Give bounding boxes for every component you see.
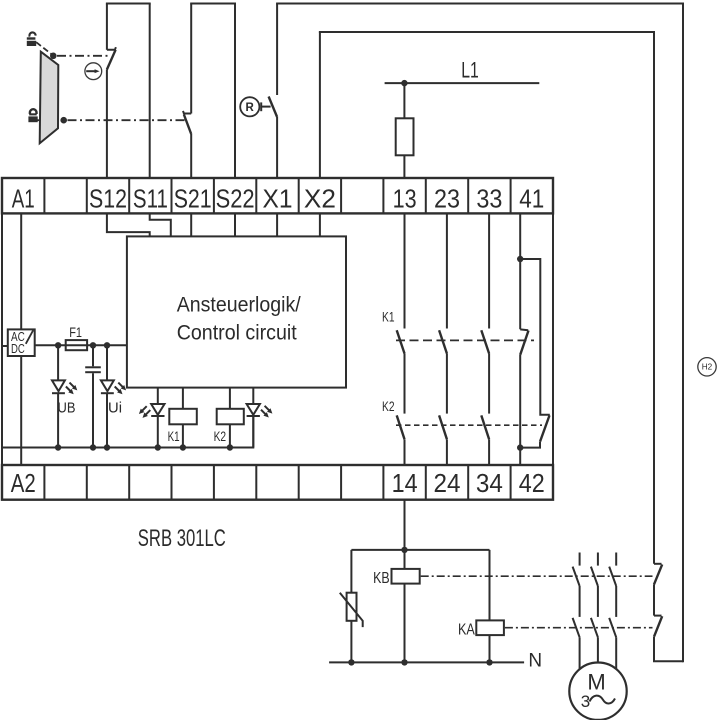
wire S12 to control box [107,213,150,236]
padlock closed (bottom) [28,109,37,122]
fuse F1 [66,325,87,350]
linkage dashed KA [505,627,653,629]
contactor KB contact L3 (NO) [609,553,616,617]
LED UB [52,345,77,447]
wire X1 to control box [276,213,278,236]
module frame left [1,213,3,464]
node rail2 UB [55,444,61,450]
relay coil KB [373,550,420,663]
terminal strip bottom row [2,465,553,500]
node L1 junction [401,80,407,86]
svg-text:34: 34 [476,468,503,498]
wire internal bottom rail [2,416,253,448]
contact K2 13-14 (NO) [397,415,405,464]
contact K1 33-34 (NO) [481,213,489,413]
svg-text:F1: F1 [69,325,82,340]
svg-text:K2: K2 [214,429,227,444]
label SRB 301LC [138,525,226,552]
capacitor C1 [85,345,101,447]
door contact B2 (NC) on S21 [183,4,191,178]
wire internal supply rail [35,344,127,346]
svg-text:Ui: Ui [108,400,122,416]
contactor KB contact L1 (NO) [573,553,580,617]
svg-text:X2: X2 [304,184,336,214]
terminal 33 [476,184,502,214]
reset button R [240,97,270,116]
svg-text:L1: L1 [461,58,479,83]
terminal strip top row [2,177,553,213]
svg-text:42: 42 [519,468,545,498]
svg-text:23: 23 [434,184,460,214]
svg-text:Ansteuerlogik/: Ansteuerlogik/ [177,293,301,317]
LED K1 [139,388,165,448]
node varistor N [348,659,354,665]
actuator direction symbol [85,63,102,80]
terminal 34 [476,468,503,498]
terminal S21 [174,184,212,214]
terminal 41 [519,184,544,214]
svg-text:A2: A2 [11,468,36,498]
svg-text:K1: K1 [382,309,395,325]
node rail Ui [104,342,110,348]
wire 14 down [404,500,406,550]
terminal S22 [216,184,255,214]
relay coil K2 [214,388,244,448]
wire N line [329,651,542,672]
svg-text:24: 24 [434,468,461,498]
varistor [340,550,363,663]
control circuit box U1 [127,236,346,387]
svg-text:14: 14 [392,468,418,498]
relay coil K1 [168,388,197,448]
svg-text:33: 33 [476,184,502,214]
svg-text:H2: H2 [702,363,713,372]
wire S21 to control box [190,213,192,236]
svg-text:X1: X1 [263,184,293,214]
wire X2 to control box [319,213,321,236]
LED Ui [101,345,126,447]
wire S11 to control box [150,213,171,236]
svg-text:S11: S11 [133,184,168,214]
wire frame stub to AC/DC [2,345,8,347]
wire A1 through to A2 row [20,356,22,465]
contact K1 23-24 (NO) [439,213,447,413]
linkage dashed K1 contacts [396,339,534,341]
wire X1 feedback loop top [276,4,684,663]
contactor KA contact L2 (NO) [591,618,598,663]
node rail2 LED K1 [155,444,161,450]
svg-text:M: M [587,670,605,695]
node rail2 C1 [90,444,96,450]
terminal 23 [434,184,460,214]
feedback contact KA (NC) [654,584,662,636]
contact K2 41-42 (NC) bypass branch [519,259,550,448]
label K1 contacts [382,309,395,325]
terminal A2 [11,468,36,498]
reset contact (NO) on X1 [269,4,278,178]
terminal S12 [89,184,127,214]
relay coil KA [458,550,504,663]
L1 supply line [385,58,540,84]
wire S12-S11 top loop [106,4,151,178]
linkage dashed K2 contacts [396,424,542,426]
node rail2 Ui [104,444,110,450]
svg-text:S12: S12 [89,184,127,214]
terminal A1 [12,184,35,214]
contact K1 41-42 (NC) [520,259,528,446]
LED K2 [247,388,273,448]
contactor KA contact L1 (NO) [573,618,580,670]
svg-text:A1: A1 [12,184,35,214]
wire branch rail KB/KA [351,549,489,551]
indicator H2 [698,358,716,376]
node KB N [401,659,407,665]
wire 41 lead [519,213,521,259]
contactor KB contact L2 (NO) [591,553,598,617]
wire S22 to control box [234,213,236,236]
svg-text:41: 41 [519,184,544,214]
terminal 42 [519,468,545,498]
wire S21-S22 top loop [190,4,236,178]
node 14 branch [401,547,407,553]
wire A1 down [20,213,22,329]
svg-text:S22: S22 [216,184,255,214]
terminal X1 [263,184,293,214]
module frame right [552,213,554,464]
wire X2 feedback loop [319,32,655,564]
padlock open (top) [27,32,36,46]
wire 42 to terminal [519,448,521,465]
terminal 14 [392,468,418,498]
motor M 3~ [569,663,626,720]
svg-text:Control circuit: Control circuit [177,320,297,344]
node door hinge top [50,53,57,60]
svg-text:R: R [245,102,254,114]
node rail C1 [90,342,96,348]
door contact B1 (NC) on S12 [107,4,116,178]
feedback contact KB (NC) [654,564,662,585]
svg-text:KA: KA [458,621,475,638]
node rail UB [55,342,61,348]
linkage dash-dot door to contact B1 [57,55,111,57]
contact K1 13-14 (NO) [397,213,405,413]
safety guard door [40,52,59,144]
AC/DC converter [8,329,35,356]
svg-text:3: 3 [581,692,590,711]
linkage dash-dot door to contact B2 [37,119,187,121]
svg-text:KB: KB [373,570,390,587]
node 42 branch bottom [517,444,523,450]
linkage dashed padlock to hinge top [36,42,51,54]
svg-text:13: 13 [393,184,417,214]
wire feedback bottom [654,637,683,662]
node rail2 coil K1 [180,444,186,450]
svg-text:K2: K2 [382,398,395,414]
svg-text:SRB 301LC: SRB 301LC [138,525,226,552]
svg-text:N: N [528,651,542,672]
contactor KA contact L3 (NO) [609,618,616,669]
node rail2 coil K2 [227,444,233,450]
svg-text:UB: UB [58,400,76,416]
svg-text:S21: S21 [174,184,212,214]
terminal 24 [434,468,461,498]
contact K2 23-24 (NO) [439,415,447,464]
node door hinge bottom [60,117,67,124]
fuse F2 on 13 feed [396,83,414,177]
svg-text:DC: DC [11,342,25,356]
linkage dashed KB [421,575,653,577]
node KA N [486,659,492,665]
terminal S11 [133,184,168,214]
svg-text:K1: K1 [168,429,180,444]
terminal 13 [393,184,417,214]
contact K2 33-34 (NO) [481,415,489,464]
label K2 contacts [382,398,395,414]
node 41 branch top [517,256,523,262]
terminal X2 [304,184,336,214]
